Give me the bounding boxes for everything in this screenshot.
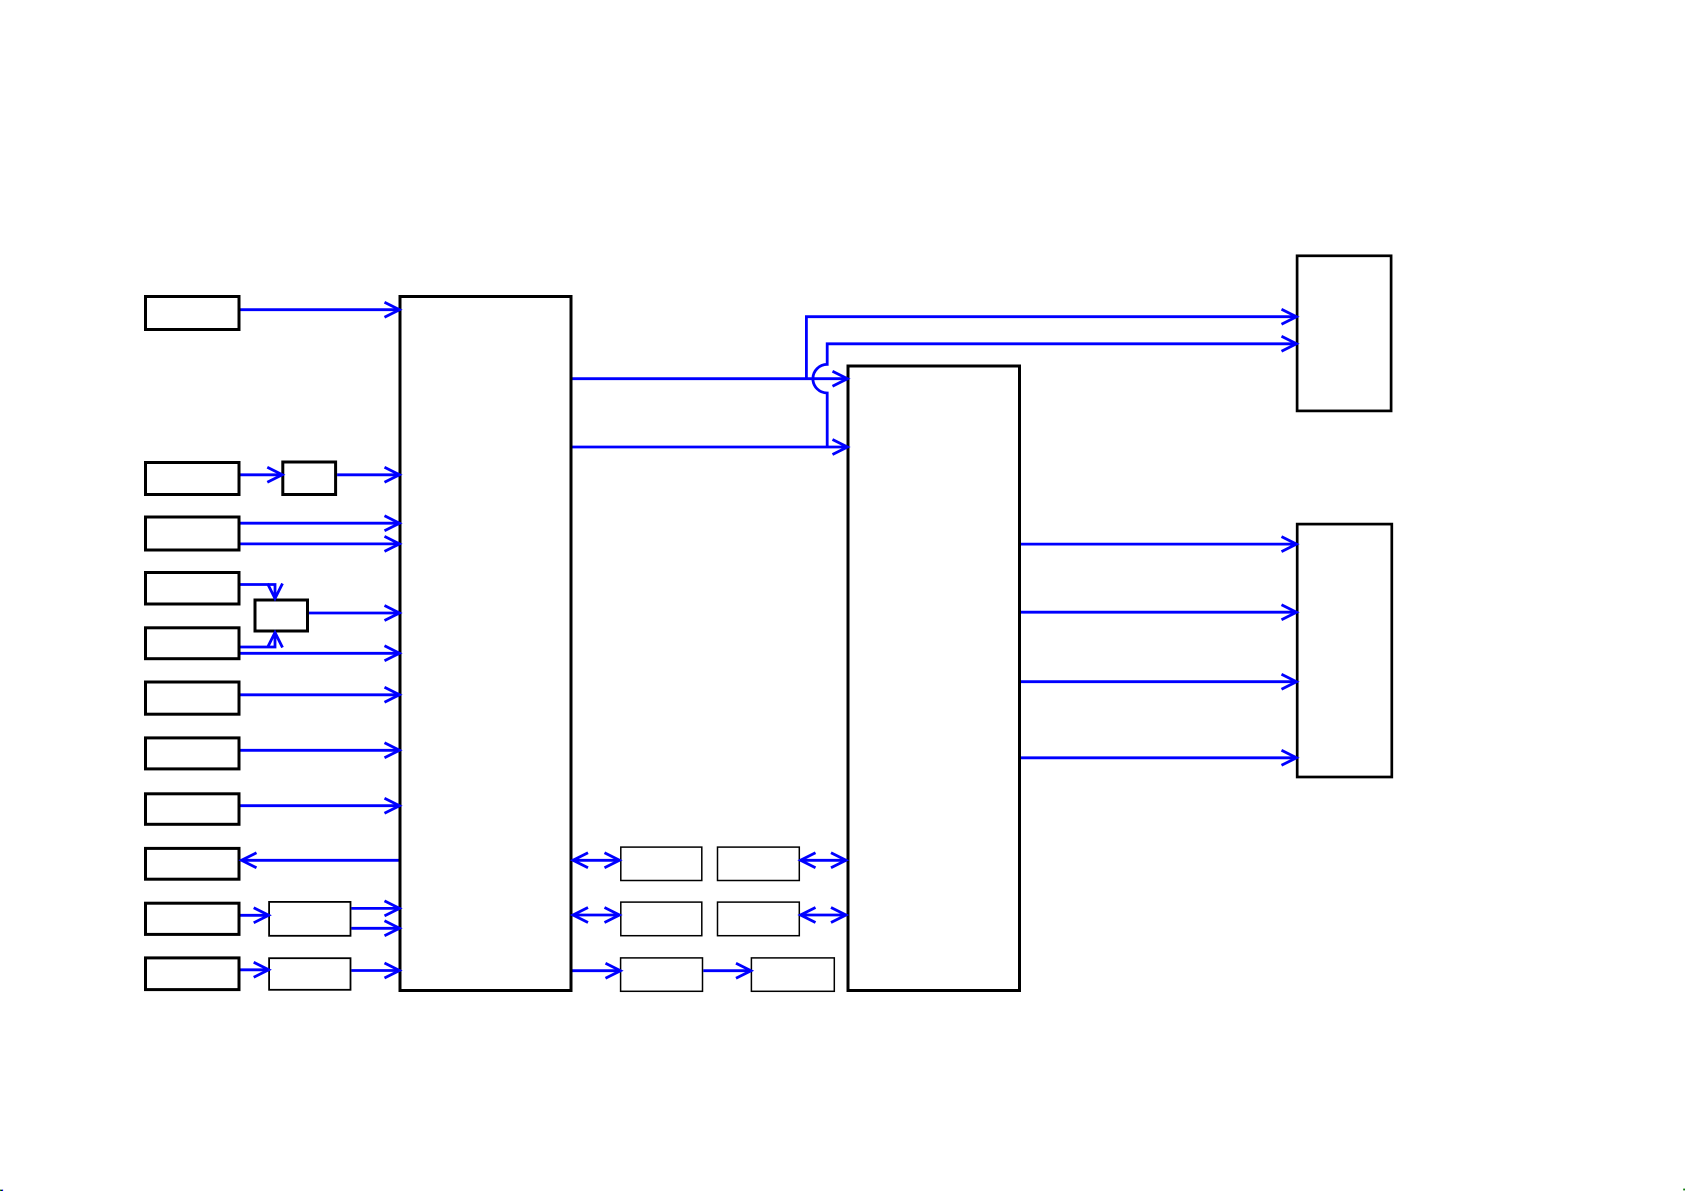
- block mem M1a: [621, 847, 702, 880]
- wire U1 to U2 (lower): [573, 440, 848, 455]
- output block (top-right): [1297, 256, 1391, 411]
- wire input-3 to U1 (lower): [241, 536, 400, 551]
- block input-8: [146, 794, 240, 825]
- wire S2 to U1: [309, 606, 400, 621]
- wire S4 to U1: [351, 963, 399, 978]
- wire U1 to output-9: [242, 853, 399, 868]
- block input-10: [146, 903, 240, 934]
- wire U1 to M3a: [573, 963, 621, 978]
- wire S3 to U1 (lower): [351, 921, 399, 936]
- block input-4: [146, 573, 240, 605]
- block mem M3a: [621, 958, 703, 991]
- block output-9: [146, 848, 240, 879]
- output block (middle-right): [1297, 524, 1392, 777]
- block driver S4: [269, 958, 350, 990]
- controller U1 (left main block): [400, 297, 571, 991]
- block combiner S2: [255, 600, 308, 631]
- corner mark bottom-right: [1683, 1189, 1685, 1191]
- block input-11: [146, 958, 240, 990]
- wire S3 to U1 (upper): [351, 901, 399, 916]
- wire input-2 to S1: [241, 467, 283, 482]
- wire U2 to right block 1: [1021, 537, 1297, 552]
- bus U1 to M2a (bidirectional): [573, 908, 620, 923]
- block mem M3b: [751, 958, 834, 991]
- bus M2b to U2 (bidirectional): [801, 908, 847, 923]
- block input-1 (top-left): [146, 297, 240, 330]
- wire input-8 to U1: [241, 798, 400, 813]
- block input-5: [146, 628, 240, 659]
- corner mark bottom-left: [0, 1190, 3, 1191]
- wire input-7 to U1: [241, 743, 400, 758]
- wire branch node A up to top-right block: [806, 309, 1296, 379]
- wire input-6 to U1: [241, 687, 400, 702]
- block input-6: [146, 682, 240, 714]
- wire branch node B with hop over upper wire to top-right block: [813, 336, 1297, 447]
- wire U2 to right block 2: [1021, 605, 1297, 620]
- wire input-1 to U1: [241, 302, 400, 317]
- controller U2 (right main block): [848, 366, 1020, 991]
- wire input-5 up into S2: [241, 633, 283, 648]
- wire M3a to M3b: [703, 963, 751, 978]
- wire U1 to U2 (upper): [573, 371, 848, 386]
- block driver S3: [269, 902, 350, 936]
- wire input-4 down into S2: [241, 584, 283, 599]
- wire input-11 to S4: [241, 962, 269, 977]
- bus M1b to U2 (bidirectional): [801, 853, 847, 868]
- wire input-3 to U1 (upper): [241, 516, 400, 531]
- bus U1 to M1a (bidirectional): [573, 853, 620, 868]
- block input-7: [146, 738, 240, 769]
- block mem M1b: [718, 847, 800, 880]
- wire U2 to right block 3: [1021, 674, 1297, 689]
- wire input-5 to U1: [241, 646, 400, 661]
- block mem M2a: [621, 902, 702, 936]
- wire input-10 to S3: [241, 908, 269, 923]
- wire U2 to right block 4: [1021, 750, 1297, 765]
- block mem M2b: [718, 902, 800, 936]
- block input-2: [146, 463, 240, 495]
- block input-3: [146, 517, 240, 550]
- block conditioner S1: [283, 462, 336, 495]
- wire S1 to U1: [337, 467, 399, 482]
